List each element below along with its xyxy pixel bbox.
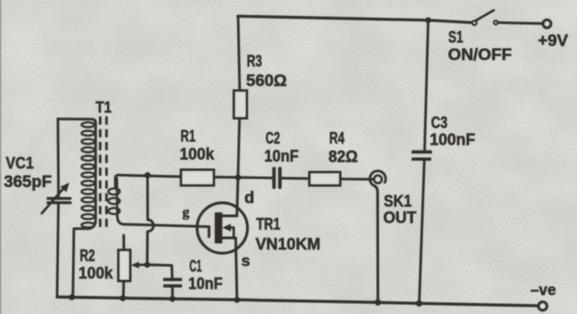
svg-text:T1: T1 [96, 99, 112, 116]
svg-text:560Ω: 560Ω [246, 72, 287, 90]
svg-text:R1: R1 [181, 128, 196, 146]
svg-text:TR1: TR1 [256, 216, 280, 234]
svg-text:R2: R2 [80, 247, 95, 265]
svg-text:SK1: SK1 [384, 192, 412, 210]
svg-text:100nF: 100nF [430, 131, 476, 149]
svg-text:10nF: 10nF [188, 275, 222, 293]
svg-text:ON/OFF: ON/OFF [448, 46, 512, 64]
svg-text:OUT: OUT [383, 209, 416, 227]
svg-text:C3: C3 [431, 114, 448, 132]
svg-text:82Ω: 82Ω [329, 148, 358, 166]
svg-text:10nF: 10nF [264, 148, 298, 166]
svg-text:+9V: +9V [538, 32, 568, 50]
svg-text:VC1: VC1 [6, 155, 34, 173]
svg-text:g: g [182, 206, 189, 221]
svg-text:C1: C1 [189, 258, 201, 276]
svg-text:100k: 100k [180, 145, 215, 163]
svg-text:R3: R3 [247, 52, 262, 70]
svg-text:C2: C2 [266, 130, 281, 148]
svg-text:R4: R4 [329, 130, 344, 148]
svg-text:–ve: –ve [530, 282, 556, 299]
svg-text:VN10KM: VN10KM [256, 235, 321, 253]
svg-text:100k: 100k [79, 264, 114, 282]
svg-text:d: d [244, 189, 254, 207]
svg-text:365pF: 365pF [4, 173, 52, 191]
svg-text:s: s [241, 253, 250, 270]
svg-text:S1: S1 [448, 29, 463, 47]
